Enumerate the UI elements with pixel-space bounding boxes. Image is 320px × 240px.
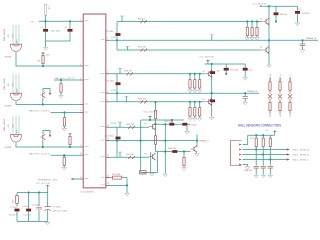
- wire low row C: [156, 151, 191, 153]
- wire branch2: [28, 193, 30, 209]
- op-amp U1 body rectangle: [83, 14, 106, 188]
- GND flag on w3: [127, 46, 129, 50]
- svg-text:R7 100k: R7 100k: [112, 174, 121, 176]
- wire U$1 out to IC: [16, 52, 83, 66]
- wire C16 down: [262, 168, 264, 174]
- node junction: [189, 101, 191, 103]
- wire riser B: [211, 64, 213, 117]
- resistor R30: [172, 150, 177, 153]
- svg-text:SS49E: SS49E: [5, 147, 12, 149]
- wire power drop: [274, 132, 276, 136]
- svg-text:14: 14: [107, 155, 109, 157]
- transistor Q5: [149, 123, 155, 130]
- svg-text:TACHO_OUT2: TACHO_OUT2: [29, 110, 51, 113]
- pin 3: [239, 154, 241, 156]
- wire mid row C: [156, 123, 191, 125]
- node junction B: [69, 20, 71, 22]
- resistor R2: [42, 55, 44, 63]
- svg-text:11: 11: [80, 145, 82, 147]
- capacitor C7: [295, 11, 300, 14]
- node junction: [154, 123, 156, 125]
- svg-text:T2: T2: [260, 47, 263, 49]
- node junction: [275, 20, 277, 22]
- svg-text:PHASE_C: PHASE_C: [199, 140, 210, 143]
- wire C1 down: [45, 32, 47, 47]
- svg-text:3: 3: [80, 64, 81, 66]
- base resistor RB1: [189, 80, 191, 88]
- connector JP1 body: [231, 141, 242, 166]
- node junction: [225, 73, 227, 75]
- ground: [46, 222, 50, 225]
- ground: [182, 168, 186, 171]
- hall flag C: [282, 158, 290, 160]
- wire VCC to IC pin 1: [39, 20, 84, 22]
- wire R25 bottom: [155, 119, 157, 124]
- wire C6 down: [47, 210, 49, 221]
- wire gate C high (w8): [106, 126, 149, 128]
- capacitor C5: [36, 207, 41, 209]
- wire R27 top: [155, 124, 157, 135]
- wire U$2 out to IC: [16, 101, 83, 104]
- wire R3 bottom: [64, 126, 66, 128]
- resistor R12: [269, 102, 271, 110]
- svg-text:18: 18: [107, 183, 109, 185]
- wire R25 top: [155, 102, 157, 110]
- wire R5: [69, 145, 71, 147]
- GND flag on w1: [121, 16, 123, 22]
- transistor Q8: [191, 145, 197, 152]
- wire RB3 top: [199, 74, 201, 80]
- resistor R15: [289, 78, 291, 82]
- svg-text:HALL SENSORS CONNECTORS: HALL SENSORS CONNECTORS: [238, 123, 281, 127]
- svg-text:VCC_MOTOR: VCC_MOTOR: [252, 3, 266, 5]
- wire sense drop: [196, 134, 198, 147]
- pulldown R21: [189, 108, 191, 116]
- node junction: [140, 140, 142, 142]
- wire C3 down: [16, 212, 18, 222]
- node junction: [199, 101, 201, 103]
- node junction: [301, 39, 303, 41]
- wire R11 to D1: [269, 91, 271, 94]
- wire R23a top: [199, 102, 201, 108]
- node junction: [268, 5, 270, 7]
- wire R27 bottom: [155, 145, 157, 152]
- svg-text:10u/25V: 10u/25V: [23, 214, 32, 216]
- svg-text:PHASE_A: PHASE_A: [306, 37, 317, 40]
- wire branch1: [16, 193, 18, 196]
- svg-text:R30 100: R30 100: [168, 148, 177, 150]
- wire RA3 top: [256, 22, 258, 28]
- wire top bus: [17, 192, 48, 194]
- sense resistor R20: [210, 100, 215, 103]
- wire down to ground: [126, 178, 128, 193]
- GND flag on w5: [119, 68, 121, 74]
- arrow flag: [71, 178, 74, 180]
- svg-text:HALL_SENS_A: HALL_SENS_A: [293, 149, 310, 152]
- GND flag on w10: [119, 152, 121, 157]
- resistor R11: [269, 78, 271, 82]
- GND flag on w2: [211, 35, 213, 41]
- node junction: [251, 20, 253, 22]
- resistor R5: [69, 136, 71, 144]
- ground: [245, 167, 249, 170]
- wire R32 bottom: [255, 147, 257, 150]
- wire pin5: [243, 165, 248, 167]
- svg-text:GND: GND: [16, 129, 18, 134]
- wire R22 top: [194, 102, 196, 108]
- svg-text:T3: T3: [202, 71, 205, 73]
- resistor R17: [224, 68, 229, 71]
- node junction: [196, 140, 198, 142]
- resistor R14: [279, 102, 281, 110]
- node junction: [211, 92, 213, 94]
- svg-text:2u2/25V: 2u2/25V: [302, 13, 311, 15]
- wire C4 down: [28, 212, 30, 222]
- transistor Q10 glyph: [40, 92, 45, 98]
- resistor R24: [128, 126, 134, 129]
- node junction: [164, 150, 166, 152]
- svg-text:13: 13: [80, 153, 82, 155]
- svg-text:T5: T5: [144, 123, 147, 125]
- ground: [185, 131, 189, 134]
- IC left pin stubs: [80, 21, 83, 179]
- node junction: [42, 146, 44, 148]
- svg-text:C12 100n: C12 100n: [105, 80, 115, 82]
- resistor R19: [141, 100, 147, 103]
- svg-text:GND: GND: [16, 39, 18, 44]
- svg-text:10u/25V: 10u/25V: [9, 214, 18, 216]
- bootstrap riser cap C12: [116, 74, 118, 102]
- node junction: [116, 39, 118, 41]
- transistor Q2: [263, 46, 269, 53]
- capacitor C6 polarized: [45, 206, 51, 208]
- wire C17 down: [269, 168, 271, 174]
- svg-text:12: 12: [107, 138, 109, 140]
- wire labeled stub 5: [71, 178, 83, 180]
- resistor R7: [113, 176, 122, 179]
- wire gate A high (w1): [117, 21, 262, 23]
- wire R6 to C3: [16, 204, 18, 207]
- transistor Q6: [149, 153, 155, 160]
- wire R21 top: [189, 102, 191, 108]
- svg-text:+5V: +5V: [46, 55, 50, 57]
- IC pin numbers right: [107, 38, 109, 185]
- svg-text:R8 10k: R8 10k: [280, 14, 288, 16]
- node junction: [256, 20, 258, 22]
- node junction: [199, 73, 201, 75]
- ground: [255, 38, 259, 41]
- wire C11 down: [244, 99, 246, 102]
- svg-text:6: 6: [107, 91, 108, 93]
- wire R33 bottom: [262, 147, 264, 155]
- svg-text:1: 1: [80, 19, 81, 21]
- svg-text:U$1: U$1: [12, 33, 14, 38]
- resistor R1: [44, 4, 46, 15]
- svg-text:100u/25V SMD: 100u/25V SMD: [53, 211, 68, 213]
- node junction: [126, 184, 128, 186]
- net flag box: [140, 171, 147, 175]
- ground: [250, 38, 254, 41]
- wire RA1 top: [246, 22, 248, 28]
- wire RA3 bottom: [256, 36, 258, 38]
- svg-text:HALL_SENS_B: HALL_SENS_B: [293, 154, 310, 157]
- wire gate B low (w7): [106, 101, 205, 103]
- wire pin3: [243, 154, 282, 156]
- wire R21 bottom: [189, 116, 191, 118]
- resistor R8: [274, 12, 279, 15]
- wire pin4: [243, 159, 282, 161]
- power flag: [259, 5, 263, 7]
- svg-text:+5V: +5V: [8, 124, 10, 128]
- wire power drop: [47, 186, 49, 192]
- wire phase A (w2): [106, 39, 318, 41]
- svg-text:C7: C7: [298, 9, 302, 11]
- ground riser C bottom: [150, 173, 154, 176]
- svg-text:MAG_SENS: MAG_SENS: [3, 118, 6, 131]
- svg-text:C9 100n: C9 100n: [105, 31, 114, 33]
- svg-text:4k7: 4k7: [13, 199, 15, 203]
- svg-text:15: 15: [80, 177, 82, 179]
- wire RA2 top: [251, 22, 253, 28]
- capacitor C14: [116, 137, 121, 140]
- transistor Q1: [263, 18, 269, 25]
- ground: [125, 193, 129, 196]
- base resistor RA3: [256, 27, 258, 35]
- diode arrow: [49, 135, 52, 138]
- capacitor C12: [116, 82, 121, 85]
- svg-text:OUT2: OUT2: [111, 90, 117, 92]
- wire to R3: [64, 113, 66, 118]
- capacitor C16: [261, 166, 266, 168]
- sensor U$3 leads: [13, 116, 19, 136]
- svg-text:VCC_MOTOR: VCC_MOTOR: [200, 57, 214, 59]
- wire R5 top: [69, 134, 71, 136]
- svg-text:10k: 10k: [48, 6, 50, 10]
- pullup resistor R34: [269, 135, 271, 138]
- GND flag on w7: [125, 96, 127, 102]
- sensor U$1 leads: [13, 25, 19, 45]
- wire gate B high (w5): [106, 73, 205, 75]
- wire pullup R2: [42, 64, 44, 66]
- wire R34 bottom: [269, 147, 271, 160]
- pullup resistor R32: [255, 135, 257, 138]
- svg-text:T4: T4: [202, 99, 205, 101]
- wire bottom bus: [17, 220, 48, 222]
- wire R2 top: [42, 53, 44, 55]
- wire U$3 out to IC: [16, 143, 83, 147]
- ground: [62, 167, 66, 170]
- wire C10 down: [244, 71, 246, 77]
- svg-text:T6: T6: [144, 154, 147, 156]
- wire pullup rail: [248, 134, 275, 136]
- ground: [188, 118, 192, 121]
- ground: [198, 90, 202, 93]
- svg-text:R18 4k7: R18 4k7: [124, 71, 133, 73]
- power flag: [148, 116, 152, 118]
- svg-text:C14 100n: C14 100n: [105, 135, 115, 137]
- node junction: [42, 65, 44, 67]
- svg-text:2u2: 2u2: [249, 70, 253, 72]
- bootstrap riser cap C14: [116, 127, 118, 157]
- filter cap drop 1: [255, 150, 257, 166]
- IC right pin names: [101, 40, 105, 185]
- base resistor RB3: [199, 80, 201, 88]
- svg-text:T1: T1: [260, 19, 263, 21]
- wire C8 down: [302, 46, 304, 49]
- wire R1 to net: [45, 15, 47, 21]
- ground: [62, 128, 66, 131]
- wire phase B (w6): [106, 92, 259, 94]
- wire D2 to R14: [279, 99, 281, 102]
- svg-text:R26 100: R26 100: [165, 121, 174, 123]
- svg-text:+5V: +5V: [30, 21, 34, 23]
- wire R8 to gate net: [275, 15, 277, 21]
- power flag: [68, 133, 72, 135]
- hang resistor R36: [183, 150, 185, 152]
- wire pin1: [243, 135, 248, 144]
- wire pin2: [243, 149, 282, 151]
- svg-text:HALL_SENS_C: HALL_SENS_C: [293, 159, 310, 162]
- svg-text:1k: 1k: [270, 114, 272, 117]
- wire labeled stub 3: [51, 154, 84, 156]
- pulldown resistor R35: [60, 79, 62, 81]
- wire cluster to net: [42, 140, 44, 147]
- pin 2: [239, 149, 241, 151]
- capacitor C1: [43, 29, 48, 32]
- resistor R10: [141, 49, 147, 52]
- node junction: [244, 92, 246, 94]
- svg-text:16: 16: [107, 175, 109, 177]
- node junction: [116, 140, 118, 142]
- node junction: [269, 158, 271, 160]
- ground: [243, 78, 247, 81]
- ground: [43, 48, 47, 51]
- node junction: [189, 73, 191, 75]
- wire RB2 top: [194, 74, 196, 80]
- wire sense row (w9): [106, 140, 197, 142]
- base resistor RB2: [194, 80, 196, 88]
- snubber cap C11: [244, 93, 246, 96]
- wire low cluster verticals: [141, 152, 158, 173]
- svg-text:5: 5: [80, 78, 81, 80]
- node junction: [194, 101, 196, 103]
- wire R17 down: [225, 71, 227, 74]
- power flag: [41, 52, 45, 54]
- ground Q2 emitter: [267, 65, 271, 68]
- diode arrow: [49, 93, 52, 96]
- svg-text:SS49E: SS49E: [5, 57, 12, 59]
- wire to C1: [45, 21, 47, 28]
- node junction: [262, 153, 264, 155]
- node junction: [38, 191, 40, 193]
- capacitor C15: [254, 166, 259, 168]
- svg-text:C5 100n: C5 100n: [32, 204, 41, 206]
- wire branch4: [47, 193, 49, 207]
- IC left pin names: [85, 21, 89, 179]
- node junction: [69, 146, 71, 148]
- wire C2 down joins: [46, 32, 70, 41]
- node junction: [164, 140, 166, 142]
- svg-text:100n 100n: 100n 100n: [51, 30, 62, 32]
- sense resistor R20a: [210, 71, 215, 74]
- vertical sense rail: [164, 124, 166, 173]
- resistor R13: [279, 78, 281, 82]
- svg-text:C6 100u: C6 100u: [53, 206, 62, 208]
- wire R15 to D3: [289, 91, 291, 94]
- svg-text:U$2: U$2: [12, 82, 14, 87]
- node junction: [63, 111, 65, 113]
- ground: [268, 175, 272, 178]
- svg-text:R17 10k: R17 10k: [230, 70, 239, 72]
- svg-text:GND: GND: [16, 88, 18, 93]
- power flag: [46, 185, 50, 187]
- wire RB2 bottom: [194, 88, 196, 90]
- ground: [195, 154, 199, 157]
- sensor U$2 leads: [13, 74, 19, 94]
- wire labeled stub 2: [51, 112, 84, 114]
- ground: [193, 90, 197, 93]
- wire R8 drop: [275, 6, 277, 12]
- svg-text:VCC_MOTOR: VCC_MOTOR: [144, 111, 158, 113]
- IC pin numbers left: [80, 19, 82, 179]
- ground riser B bottom: [210, 117, 214, 120]
- wire riser A: [268, 6, 270, 64]
- svg-text:+5V: +5V: [8, 83, 10, 87]
- wire RB3 bottom: [199, 88, 201, 90]
- ground: [193, 118, 197, 121]
- node junction: [164, 123, 166, 125]
- ground: [245, 38, 249, 41]
- pullup resistor R33: [262, 135, 264, 138]
- wire C10 drop: [244, 64, 246, 68]
- pin 1: [239, 144, 241, 146]
- svg-text:TACHO_OUT3: TACHO_OUT3: [29, 152, 51, 155]
- wire R22 bottom: [194, 116, 196, 118]
- capacitor C17: [268, 166, 273, 168]
- svg-text:SS49E: SS49E: [5, 106, 12, 108]
- transistor Q11 glyph: [40, 134, 45, 140]
- pin 5: [239, 164, 241, 166]
- ground: [163, 174, 167, 177]
- svg-text:10: 10: [107, 125, 109, 127]
- svg-text:R19 4k7: R19 4k7: [138, 99, 147, 101]
- wire C5 down: [38, 210, 40, 221]
- IC right pin stubs: [106, 40, 109, 185]
- svg-text:S5B-PH: S5B-PH: [244, 170, 252, 172]
- svg-text:8: 8: [107, 100, 108, 102]
- svg-text:PHASE_B: PHASE_B: [247, 90, 258, 93]
- node junction: [255, 148, 257, 150]
- wire riser C: [140, 120, 142, 171]
- wire rail C: [141, 117, 184, 120]
- svg-text:OUT3: OUT3: [111, 123, 117, 125]
- wire to C2: [69, 21, 71, 28]
- ground: [198, 118, 202, 121]
- cluster transistor Q11: [43, 131, 50, 135]
- node junction: [28, 191, 30, 193]
- wire C15 down: [255, 168, 257, 174]
- bootstrap riser cap C9: [116, 22, 118, 51]
- divider chain R25: [154, 110, 156, 118]
- svg-text:1k: 1k: [290, 114, 292, 117]
- svg-text:2: 2: [107, 38, 108, 40]
- svg-text:AGND: AGND: [140, 171, 147, 174]
- svg-text:C2: C2: [65, 27, 69, 29]
- node junction A: [45, 20, 47, 22]
- wire drop to ground: [186, 126, 188, 131]
- wire D1 to R12: [269, 99, 271, 102]
- capacitor C2: [68, 29, 73, 32]
